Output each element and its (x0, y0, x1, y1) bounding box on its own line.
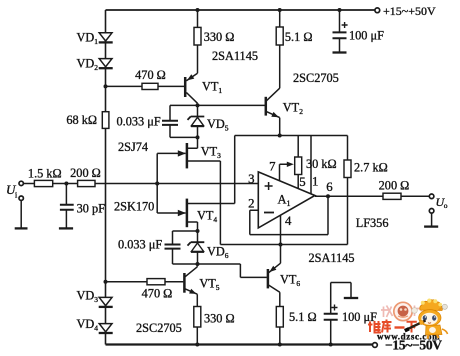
svg-text:1: 1 (312, 174, 318, 188)
svg-text:VD2: VD2 (76, 57, 98, 73)
svg-text:+15~+50V: +15~+50V (383, 4, 436, 18)
svg-text:200 Ω: 200 Ω (379, 179, 410, 193)
svg-text:5.1 Ω: 5.1 Ω (289, 310, 317, 324)
svg-text:5: 5 (299, 175, 305, 189)
svg-text:3: 3 (248, 172, 254, 186)
svg-text:200 Ω: 200 Ω (70, 166, 101, 180)
svg-text:470 Ω: 470 Ω (135, 68, 166, 82)
svg-text:1.5 kΩ: 1.5 kΩ (28, 167, 62, 181)
svg-text:2SC2705: 2SC2705 (293, 71, 339, 85)
svg-text:2SK170: 2SK170 (114, 200, 154, 214)
svg-text:30 pF: 30 pF (77, 202, 106, 216)
svg-text:2.7 kΩ: 2.7 kΩ (354, 161, 388, 175)
svg-text:2: 2 (248, 196, 254, 210)
svg-text:VT5: VT5 (199, 277, 219, 293)
svg-text:VD3: VD3 (76, 289, 98, 305)
svg-text:2SA1145: 2SA1145 (212, 49, 258, 63)
svg-text:470 Ω: 470 Ω (142, 287, 173, 301)
svg-text:5.1 Ω: 5.1 Ω (285, 30, 313, 44)
svg-text:100 μF: 100 μF (349, 28, 384, 42)
svg-text:−15~−50V: −15~−50V (385, 338, 442, 353)
svg-text:VT6: VT6 (280, 273, 300, 289)
svg-text:68 kΩ: 68 kΩ (66, 113, 97, 127)
svg-text:330 Ω: 330 Ω (204, 312, 235, 326)
svg-text:i: i (15, 191, 18, 200)
svg-text:VD5: VD5 (207, 117, 229, 133)
svg-text:VT2: VT2 (283, 101, 303, 117)
svg-text:30 kΩ: 30 kΩ (306, 157, 337, 171)
svg-text:100 μF: 100 μF (342, 310, 377, 324)
svg-text:VD6: VD6 (207, 245, 229, 261)
svg-text:VT1: VT1 (202, 80, 222, 96)
svg-text:LF356: LF356 (356, 216, 389, 230)
svg-text:0.033 μF: 0.033 μF (117, 115, 161, 129)
svg-text:2SJ74: 2SJ74 (118, 140, 148, 154)
svg-text:4: 4 (285, 214, 292, 228)
svg-text:0.033 μF: 0.033 μF (118, 237, 162, 251)
svg-text:VD4: VD4 (76, 317, 98, 333)
svg-text:VD1: VD1 (76, 30, 98, 46)
svg-text:A1: A1 (278, 193, 291, 209)
svg-text:2SC2705: 2SC2705 (136, 321, 182, 335)
svg-text:6: 6 (326, 180, 333, 194)
svg-text:o: o (444, 201, 448, 210)
svg-text:7: 7 (269, 160, 276, 174)
svg-text:VT3: VT3 (201, 145, 221, 161)
svg-text:330 Ω: 330 Ω (204, 30, 235, 44)
svg-text:2SA1145: 2SA1145 (309, 251, 355, 265)
svg-text:VT4: VT4 (197, 209, 217, 225)
